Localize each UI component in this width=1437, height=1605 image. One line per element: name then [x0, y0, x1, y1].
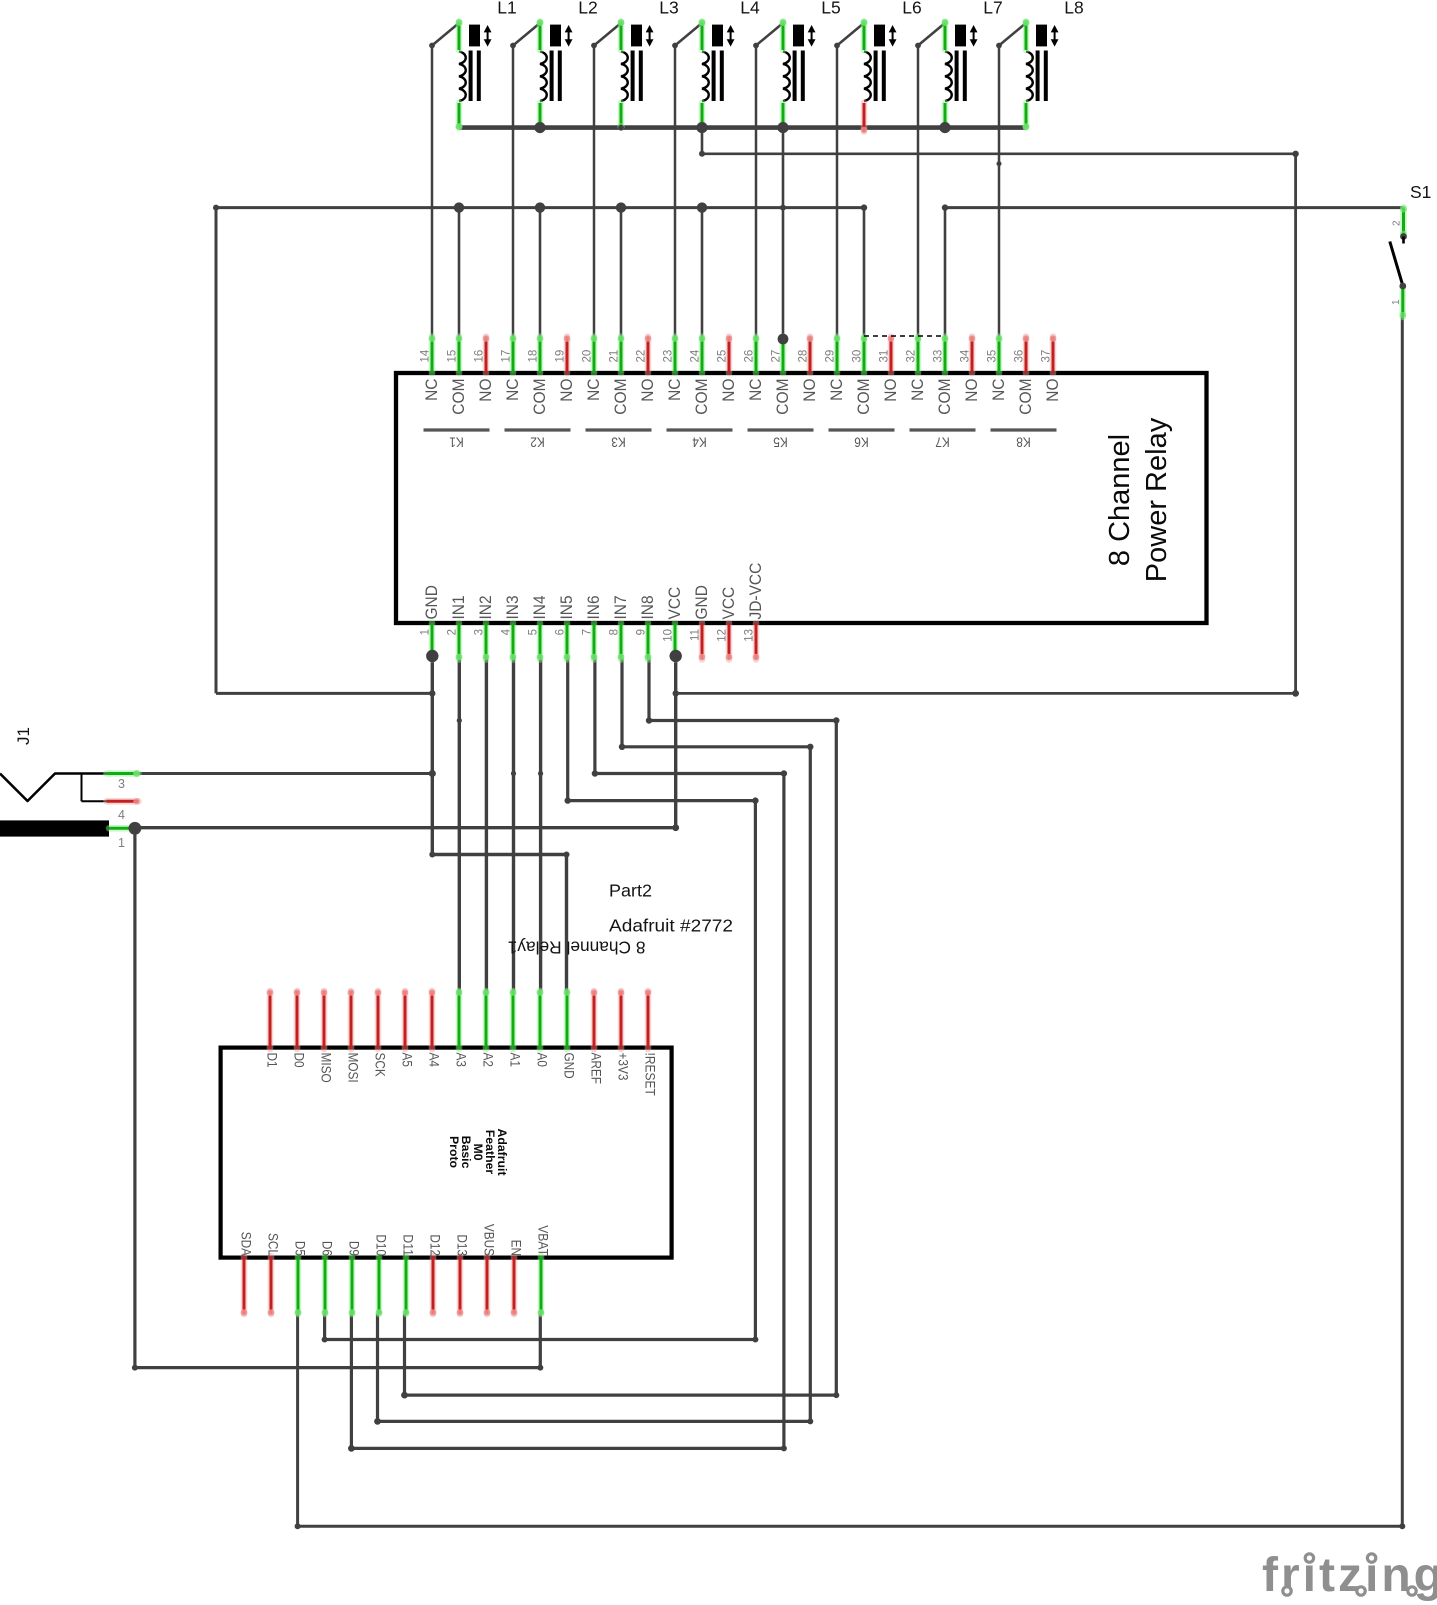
svg-text:34: 34: [960, 349, 972, 362]
solenoid L8: [1023, 0, 1084, 130]
wire: COM riser to relay pin 15: [458, 208, 461, 338]
bendpoint: D9 wire corner: [348, 1445, 355, 1452]
svg-text:IN1: IN1: [449, 595, 468, 619]
svg-text:NO: NO: [800, 379, 819, 402]
bendpoint: L7 diagonal corner: [915, 43, 921, 49]
relay group bar K1: [424, 430, 490, 451]
wire L4 top pin to relay NC riser: [675, 23, 702, 338]
svg-text:MISO: MISO: [319, 1053, 335, 1083]
bendpoint: L6 diagonal corner: [834, 43, 840, 49]
svg-text:15: 15: [447, 350, 459, 363]
wire: COM riser to relay pin 33: [944, 208, 947, 338]
bendpoint: IN6 corner: [592, 770, 598, 776]
feather pin A1 (top): [508, 989, 524, 1067]
svg-text:+3V3: +3V3: [616, 1053, 632, 1081]
switch S1: [1390, 182, 1432, 318]
wire B: COM bus K1-K6 from left riser to pin 30 riser: [216, 206, 865, 209]
relay pin 14 NC: [420, 335, 442, 401]
junction: bus at L4: [696, 122, 707, 133]
svg-text:1: 1: [1391, 299, 1402, 305]
wire L6 top pin to relay NC riser: [837, 23, 864, 338]
svg-text:COM: COM: [1016, 379, 1035, 415]
junction: COM bus at pin 24 riser: [697, 202, 707, 212]
relay pin 29 NC: [825, 335, 847, 401]
relay pin 4 IN3: [501, 595, 523, 660]
wire: IN6 from relay pin 7 to Feather D9: [351, 658, 784, 1448]
svg-text:Part2: Part2: [609, 881, 652, 901]
feather pin D9 (bottom): [347, 1241, 363, 1316]
svg-text:AREF: AREF: [589, 1053, 605, 1085]
svg-text:1: 1: [118, 836, 125, 850]
relay pin 8 IN7: [609, 595, 631, 660]
svg-text:S1: S1: [1410, 182, 1431, 202]
svg-text:D10: D10: [374, 1234, 390, 1256]
svg-text:6: 6: [555, 629, 567, 635]
svg-text:D9: D9: [347, 1241, 363, 1256]
bendpoint: wire A start: [699, 151, 705, 157]
svg-text:JD-VCC: JD-VCC: [746, 563, 765, 620]
wire C: GND horizontal to relay pin 1 riser: [216, 692, 432, 695]
relay pin 15 COM: [447, 335, 469, 415]
feather pin SCK (top): [373, 989, 389, 1077]
feather pin MISO (top): [319, 989, 335, 1083]
bendpoint: D10 wire corner: [374, 1418, 381, 1425]
bendpoint: L8 riser joint: [997, 161, 1002, 166]
relay group bar K8: [991, 430, 1057, 451]
Adafruit Feather M0 module body: [221, 1048, 672, 1258]
feather pin D10 (bottom): [374, 1234, 390, 1315]
junction: relay pin 27 top: [778, 334, 789, 345]
relay pin 31 NO: [879, 335, 901, 402]
solenoid L3: [618, 0, 679, 130]
relay pin 27 COM: [771, 335, 793, 415]
relay pin 33 COM: [933, 335, 955, 415]
bendpoint: D5 wire corner: [295, 1523, 301, 1529]
relay pin 5 IN4: [528, 595, 550, 660]
wire: relay pin 1 GND down-jog to Feather GND: [432, 658, 566, 991]
svg-text:D5: D5: [293, 1241, 309, 1256]
svg-text:35: 35: [987, 350, 999, 363]
feather pin D0 (top): [292, 989, 308, 1068]
svg-text:D13: D13: [455, 1234, 471, 1256]
J1 pin 1: [109, 828, 136, 850]
svg-text:1: 1: [420, 629, 432, 635]
wire: relay IN4 straight down to Feather A0: [539, 658, 542, 991]
wire: bus stub at L4 down to wire A: [701, 128, 704, 154]
junction: VCC tee at pin 10 riser: [673, 690, 679, 696]
svg-text:36: 36: [1014, 350, 1026, 363]
junction: D9 wire right corner: [781, 1445, 787, 1451]
relay pin 7 IN6: [582, 595, 604, 660]
wire L3 top pin to relay NC riser: [594, 23, 621, 338]
junction: bus at L2: [534, 122, 545, 133]
svg-text:NC: NC: [503, 379, 522, 401]
bendpoint: IN5 corner: [565, 797, 571, 803]
svg-text:COM: COM: [854, 379, 873, 415]
svg-text:NO: NO: [638, 379, 657, 402]
svg-text:GND: GND: [562, 1053, 578, 1079]
relay pin 21 COM: [609, 335, 631, 415]
svg-text:3: 3: [474, 629, 486, 635]
svg-text:NC: NC: [665, 379, 684, 401]
svg-text:12: 12: [717, 629, 729, 642]
svg-text:K2: K2: [530, 435, 545, 451]
wire: COM riser to relay pin 18: [539, 208, 542, 338]
bendpoint: IN8 right corner: [833, 717, 839, 723]
wire: VCC horizontal from relay pin 10 to right descent: [676, 692, 1296, 695]
feather pin SDA (bottom): [239, 1232, 255, 1316]
svg-text:K1: K1: [449, 435, 464, 451]
svg-text:MOSI: MOSI: [346, 1053, 362, 1083]
svg-text:A0: A0: [535, 1053, 551, 1068]
wire: S1 pin 1 down-around to Feather D5: [298, 316, 1403, 1526]
svg-text:8: 8: [609, 629, 621, 635]
svg-text:SCK: SCK: [373, 1053, 389, 1078]
bendpoint: IN7 right corner: [807, 744, 813, 750]
relay pin 17 NC: [501, 335, 523, 401]
svg-text:K8: K8: [1016, 435, 1031, 451]
relay pin 10 VCC: [663, 587, 685, 661]
svg-text:L8: L8: [1064, 0, 1083, 17]
svg-text:5: 5: [528, 629, 540, 635]
svg-text:NC: NC: [989, 379, 1008, 401]
svg-text:9: 9: [636, 629, 648, 635]
svg-text:D1: D1: [265, 1053, 281, 1068]
relay group bar K3: [586, 430, 652, 451]
svg-text:L5: L5: [821, 0, 840, 17]
svg-text:A3: A3: [454, 1053, 470, 1068]
bendpoint: GND jog corner 2: [564, 852, 570, 858]
svg-text:17: 17: [501, 350, 513, 363]
svg-text:28: 28: [798, 350, 810, 363]
svg-text:NC: NC: [908, 379, 927, 401]
relay pin 19 NO: [555, 335, 577, 402]
svg-text:L6: L6: [902, 0, 921, 17]
relay pin 20 NC: [582, 335, 604, 401]
feather pin D12 (bottom): [428, 1234, 444, 1315]
feather pin D11 (bottom): [401, 1234, 417, 1315]
svg-text:GND: GND: [422, 585, 441, 619]
solenoid L1: [456, 0, 517, 130]
feather title text: [447, 1128, 509, 1175]
svg-text:COM: COM: [692, 379, 711, 415]
wire: relay IN2 straight down to Feather A2: [485, 658, 488, 991]
svg-text:7: 7: [582, 629, 594, 635]
svg-text:32: 32: [906, 350, 918, 363]
svg-text:D12: D12: [428, 1234, 444, 1256]
feather pin A2 (top): [481, 989, 497, 1067]
feather pin VBUS (bottom): [482, 1224, 498, 1316]
junction: relay pin 1 GND: [426, 650, 438, 662]
wire L1 top pin to relay NC riser: [432, 23, 459, 338]
J1 pin 3: [107, 770, 140, 791]
relay pin 12 VCC: [717, 587, 739, 661]
bendpoint: GND jog corner: [429, 852, 435, 858]
bendpoint: L8 diagonal corner: [996, 43, 1002, 49]
svg-text:NO: NO: [719, 379, 738, 402]
relay pin 11 GND: [690, 585, 712, 660]
wire: relay IN1 straight down to Feather A3: [458, 658, 461, 991]
solenoid L5: [780, 0, 841, 130]
svg-text:A5: A5: [400, 1053, 416, 1068]
junction: bus at L3 (bendpoint): [618, 125, 624, 131]
wire: COM riser to relay pin 21: [620, 208, 623, 338]
svg-text:21: 21: [609, 350, 621, 363]
feather pin AREF (top): [589, 989, 605, 1084]
svg-text:COM: COM: [449, 379, 468, 415]
wire B2: COM bus K7-K8 to switch S1 pin 2: [944, 206, 1404, 209]
svg-text:L2: L2: [578, 0, 597, 17]
junction: VCC corner right side: [1292, 690, 1299, 697]
svg-text:2: 2: [447, 629, 459, 635]
svg-text:Adafruit #2772: Adafruit #2772: [609, 916, 733, 936]
svg-text:30: 30: [852, 350, 864, 363]
svg-text:L1: L1: [497, 0, 516, 17]
bendpoint: L2 diagonal corner: [510, 43, 516, 49]
svg-text:24: 24: [690, 349, 702, 362]
relay group bar K2: [505, 430, 571, 451]
svg-text:K3: K3: [611, 435, 626, 451]
J1 pin 4: [107, 798, 140, 822]
bendpoint: L1 diagonal corner: [429, 43, 435, 49]
relay pin 13 JD-VCC: [744, 563, 766, 661]
svg-text:Proto: Proto: [447, 1136, 461, 1169]
bendpoint: wire A right corner: [1292, 151, 1298, 157]
svg-text:COM: COM: [611, 379, 630, 415]
svg-text:SDA: SDA: [239, 1232, 255, 1257]
svg-text:10: 10: [663, 629, 675, 642]
relay pin 26 NC: [744, 335, 766, 401]
svg-text:COM: COM: [935, 379, 954, 415]
svg-text:IN7: IN7: [611, 595, 630, 619]
svg-text:L7: L7: [983, 0, 1002, 17]
wire L5 top pin to relay NC riser: [756, 23, 783, 338]
svg-text:NC: NC: [584, 379, 603, 401]
wire: IN5 from relay pin 6 to Feather D6: [325, 658, 756, 1340]
svg-text:VBAT: VBAT: [536, 1225, 552, 1256]
fritzing watermark: [1262, 1549, 1437, 1602]
wire: relay pin10 VCC riser and branch down to J1 wire: [674, 658, 677, 828]
svg-text:37: 37: [1041, 350, 1053, 363]
bendpoint: L4 diagonal corner: [672, 43, 678, 49]
svg-text:22: 22: [636, 350, 648, 363]
svg-text:8 Channel: 8 Channel: [1104, 434, 1136, 566]
svg-text:NO: NO: [881, 379, 900, 402]
svg-text:NC: NC: [422, 379, 441, 401]
svg-text:16: 16: [474, 350, 486, 363]
relay pin 16 NO: [474, 335, 496, 402]
relay pin 32 NC: [906, 335, 928, 401]
bendpoint: D6 wire corner: [322, 1337, 328, 1343]
svg-text:4: 4: [118, 808, 125, 822]
bendpoint: IN1 riser: [457, 718, 462, 723]
svg-text:VBUS: VBUS: [482, 1224, 498, 1256]
svg-text:14: 14: [420, 349, 432, 362]
relay pin 6 IN5: [555, 595, 577, 660]
svg-text:3: 3: [118, 777, 125, 791]
svg-text:4: 4: [501, 628, 513, 635]
relay group bar K6: [829, 430, 895, 451]
wire: VCC net right-side descent: [1294, 154, 1297, 694]
junction: D10 wire right corner: [807, 1418, 813, 1424]
junction: COM bus at pin 33 riser: [942, 204, 948, 210]
svg-text:IN2: IN2: [476, 595, 495, 619]
relay pin 28 NO: [798, 335, 820, 402]
feather pin A0 (top): [535, 989, 551, 1067]
relay pin 23 NC: [663, 335, 685, 401]
svg-text:26: 26: [744, 350, 756, 363]
bendpoint: VBAT wire corner right: [537, 1365, 543, 1371]
svg-text:IN8: IN8: [638, 595, 657, 619]
bendpoint: IN8 corner: [646, 717, 652, 723]
svg-text:D6: D6: [320, 1241, 336, 1256]
bendpoint: IN3 riser: [511, 771, 516, 776]
feather pin MOSI (top): [346, 989, 362, 1082]
relay pin 24 COM: [690, 335, 712, 415]
junction: D11 wire right corner: [833, 1392, 839, 1398]
solenoid L6: [861, 0, 922, 133]
feather pin A3 (top): [454, 989, 470, 1067]
junction: bus at L5: [777, 122, 788, 133]
bendpoint: IN5 right corner: [752, 797, 758, 803]
relay pin 37 NO: [1041, 335, 1063, 402]
svg-text:8 Channel Relay1: 8 Channel Relay1: [508, 938, 646, 958]
solenoid L4: [699, 0, 760, 130]
svg-text:K6: K6: [854, 435, 869, 451]
wire: IN8 from relay pin 9 to Feather D11: [405, 658, 837, 1395]
label Part2 / Adafruit #2772: [609, 881, 733, 936]
relay pin 9 IN8: [636, 595, 658, 660]
svg-text:11: 11: [690, 629, 702, 641]
junction: relay pin 10 VCC: [670, 650, 682, 662]
feather pin A5 (top): [400, 989, 416, 1067]
svg-text:K7: K7: [935, 435, 950, 451]
junction: J1 pin3 wire at GND riser: [429, 770, 436, 777]
feather pin GND (top): [562, 989, 578, 1078]
svg-text:33: 33: [933, 350, 945, 363]
svg-text:IN6: IN6: [584, 595, 603, 619]
svg-text:NO: NO: [557, 379, 576, 402]
wire: relay IN3 straight down to Feather A1: [512, 658, 515, 991]
svg-text:Power Relay: Power Relay: [1141, 417, 1173, 582]
wire: J1 pin 1 down and right to Feather VBAT: [135, 828, 540, 1367]
svg-text:K4: K4: [692, 435, 707, 451]
junction: COM bus at pin 27 riser: [780, 205, 786, 211]
svg-text:13: 13: [744, 629, 756, 642]
relay title text: 8 Channel Power Relay: [1104, 417, 1173, 582]
svg-text:IN5: IN5: [557, 595, 576, 619]
svg-text:VCC: VCC: [665, 587, 684, 620]
svg-text:A1: A1: [508, 1053, 524, 1068]
svg-text:GND: GND: [692, 585, 711, 619]
junction: COM bus at pin 30 riser: [861, 204, 867, 210]
relay pin 18 COM: [528, 335, 550, 415]
relay pin 35 NC: [987, 335, 1009, 401]
feather pin A4 (top): [427, 989, 443, 1067]
relay pin 3 IN2: [474, 595, 496, 660]
svg-text:D11: D11: [401, 1234, 417, 1256]
feather pin +3V3 (top): [616, 989, 632, 1080]
svg-text:NO: NO: [476, 379, 495, 402]
svg-text:2: 2: [1392, 220, 1403, 226]
ratsnest dashed link pins 30-33: [864, 335, 945, 337]
wire: left riser from COM bus down to GND wire C: [215, 208, 218, 694]
bendpoint: L5 diagonal corner: [753, 43, 759, 49]
connector J1 audio jack: [0, 727, 109, 837]
relay group bar K7: [910, 430, 976, 451]
svg-text:NC: NC: [827, 379, 846, 401]
wire: J1 pin 1 right to VCC branch: [135, 826, 676, 829]
bendpoint: COM bus left corner: [213, 205, 219, 211]
svg-text:29: 29: [825, 350, 837, 363]
bendpoint: IN7 corner: [619, 744, 625, 750]
feather pin SCL (bottom): [266, 1233, 282, 1316]
junction: D6 wire right corner: [752, 1337, 758, 1343]
relay pin 2 IN1: [447, 595, 469, 660]
solenoid L7: [942, 0, 1003, 130]
relay pin 1 GND: [420, 585, 442, 660]
wire L8 top pin to relay NC riser: [999, 23, 1026, 338]
relay group bar K5: [748, 430, 814, 451]
relay pin 22 NO: [636, 335, 658, 402]
svg-text:A4: A4: [427, 1053, 443, 1068]
wire: IN7 from relay pin 8 to Feather D10: [378, 658, 811, 1421]
svg-text:L3: L3: [659, 0, 678, 17]
bendpoint: VBAT wire corner left: [132, 1365, 138, 1371]
relay pin 30 COM: [852, 335, 874, 415]
junction: COM bus at pin 21 riser: [616, 202, 626, 212]
feather pin D5 (bottom): [293, 1241, 309, 1316]
bendpoint: S1 descent corner: [1399, 1523, 1405, 1529]
svg-text:31: 31: [879, 350, 891, 363]
svg-text:D0: D0: [292, 1053, 308, 1068]
8 Channel Power Relay module body: [396, 373, 1207, 623]
svg-text:K5: K5: [773, 435, 788, 451]
svg-text:A2: A2: [481, 1053, 497, 1068]
bendpoint: D11 wire corner: [401, 1392, 408, 1399]
relay pin 36 COM: [1014, 335, 1036, 415]
svg-text:IN3: IN3: [503, 595, 522, 619]
junction: COM bus at pin 18 riser: [535, 202, 545, 212]
junction: GND wire C at pin 1 riser: [429, 690, 435, 696]
junction: J1 wire at VCC riser: [672, 824, 679, 831]
svg-text:NO: NO: [1043, 379, 1062, 402]
svg-text:SCL: SCL: [266, 1233, 282, 1256]
bendpoint: IN4 riser: [538, 771, 543, 776]
feather pin EN (bottom): [509, 1240, 525, 1316]
svg-text:!RESET: !RESET: [643, 1053, 659, 1097]
svg-text:IN4: IN4: [530, 595, 549, 619]
svg-text:EN: EN: [509, 1240, 525, 1256]
wire L2 top pin to relay NC riser: [513, 23, 540, 338]
svg-text:20: 20: [582, 350, 594, 363]
svg-text:23: 23: [663, 350, 675, 363]
svg-text:VCC: VCC: [719, 587, 738, 620]
wire: COM riser to relay pin 30: [863, 208, 866, 338]
svg-text:COM: COM: [530, 379, 549, 415]
bendpoint: L3 diagonal corner: [591, 43, 597, 49]
svg-text:NC: NC: [746, 379, 765, 401]
feather pin D13 (bottom): [455, 1234, 471, 1315]
wire A: VCC net horizontal to right edge: [702, 153, 1296, 156]
svg-text:25: 25: [717, 350, 729, 363]
bendpoint: IN6 right corner: [781, 770, 787, 776]
svg-text:NO: NO: [962, 379, 981, 402]
wire: solenoid bottom bus L1..L8: [459, 125, 1026, 130]
feather pin !RESET (top): [643, 989, 659, 1096]
junction: J1 pin 1: [129, 822, 142, 835]
relay pin 34 NO: [960, 335, 982, 402]
